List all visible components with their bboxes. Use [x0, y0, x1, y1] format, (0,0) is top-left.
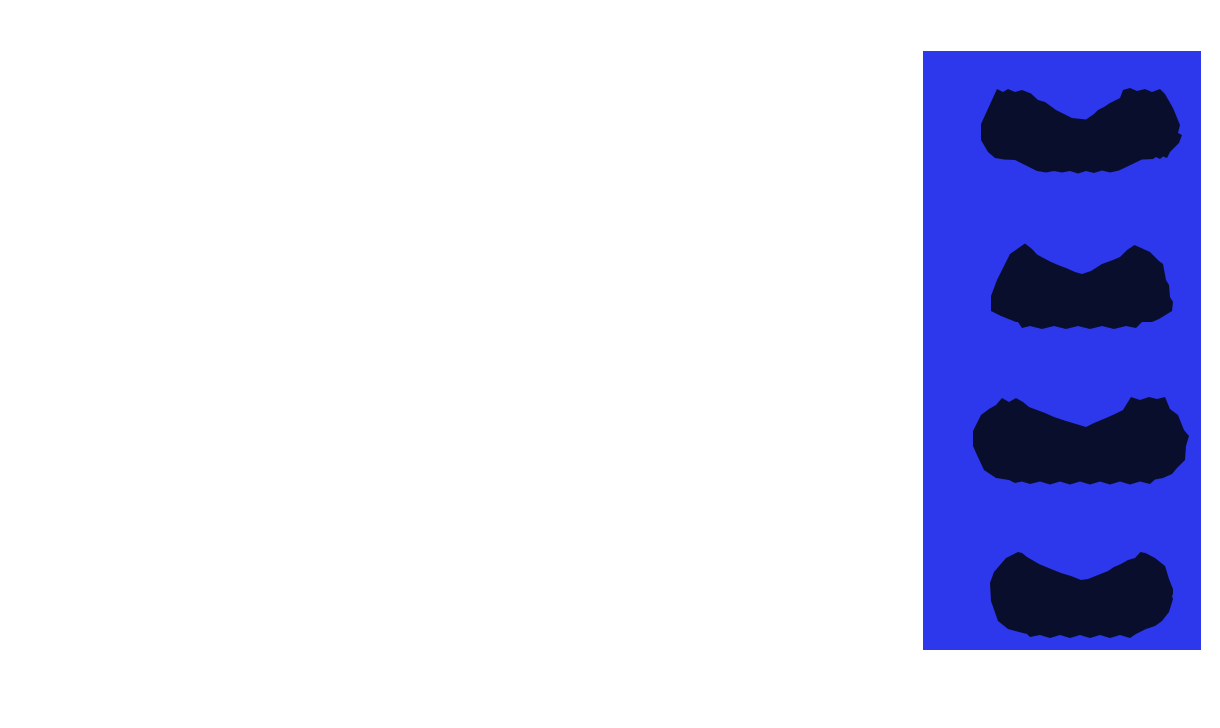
blue sidebar panel — [923, 51, 1201, 650]
logo blob 3 — [973, 397, 1189, 485]
logo blob 2 — [991, 244, 1173, 330]
logo blob 1 — [981, 88, 1182, 174]
logo blob 4 — [990, 552, 1173, 638]
